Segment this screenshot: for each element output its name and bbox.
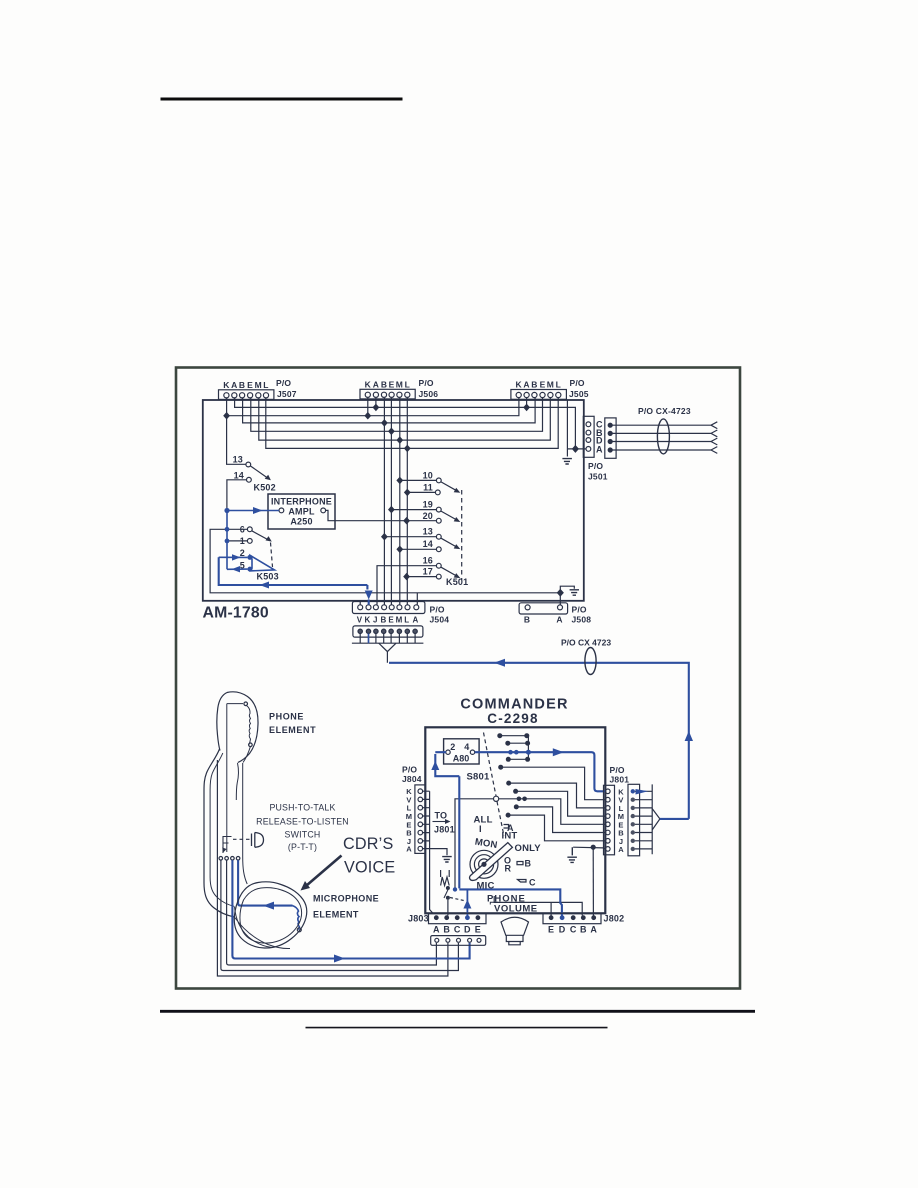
connector J508 body	[519, 603, 568, 614]
wire contact 14 to column M	[400, 548, 437, 550]
S801 pair3 dot R	[525, 757, 530, 762]
A80 pin labels and designator	[450, 742, 469, 764]
K503 contact 5 blue	[247, 567, 252, 572]
svg-text:6: 6	[240, 525, 245, 535]
svg-text:TO: TO	[435, 811, 448, 821]
S801 contact B dot	[514, 804, 519, 809]
PTT dashed link	[450, 898, 466, 902]
K501 arm 19-20	[441, 511, 458, 520]
position marker A tick	[504, 825, 509, 829]
junction dot node contact 1	[225, 539, 230, 544]
wire blue J504 strip K lead	[368, 634, 370, 644]
J801 cable funnel	[652, 809, 660, 830]
wire ground tap from box top edge	[566, 400, 568, 457]
phone element inner detail	[227, 704, 243, 852]
ground symbol commander left	[442, 857, 452, 862]
arrow into A250	[253, 507, 263, 514]
J506 pin K	[365, 392, 370, 397]
arrow on voice bus toward K503	[260, 582, 270, 589]
J803 mating contact B	[446, 938, 450, 942]
relay K501 contact 10	[436, 478, 441, 483]
blue mic grille	[293, 906, 300, 930]
J804 pin stubs and cable bus	[423, 791, 434, 914]
wire CX-4723 lead 4	[612, 447, 717, 454]
S801 contact L wire to J801	[510, 783, 605, 808]
wire CX-4723 lead 2	[612, 430, 717, 437]
J507 pin K	[224, 393, 229, 398]
relay K502 contact 14	[247, 477, 252, 482]
svg-text:E: E	[388, 616, 394, 625]
wire blue J803 D mic lead	[466, 889, 468, 915]
svg-text:K: K	[223, 380, 230, 390]
junction dot A250 input node	[224, 508, 229, 513]
svg-text:J504: J504	[430, 615, 450, 625]
svg-text:J505: J505	[569, 389, 589, 399]
svg-text:4: 4	[464, 742, 469, 752]
svg-text:K: K	[365, 616, 371, 625]
J504 pins V K J B E M L A	[358, 605, 363, 610]
J507 pin B	[240, 393, 245, 398]
junction diamond J508 ground net	[557, 589, 564, 597]
PTT dashed actuator link	[233, 838, 250, 840]
svg-text:20: 20	[423, 511, 433, 521]
S801 knob lever	[470, 843, 513, 881]
svg-text:PUSH-TO-TALK: PUSH-TO-TALK	[269, 803, 335, 813]
svg-text:K501: K501	[446, 577, 468, 587]
A80 audio amplifier box	[444, 739, 480, 764]
svg-text:17: 17	[423, 567, 433, 577]
svg-text:ALL: ALL	[474, 815, 493, 826]
connector J804 strip	[415, 785, 426, 854]
J803 mating contact D	[468, 938, 472, 942]
svg-text:K: K	[516, 380, 523, 390]
svg-text:P/O: P/O	[588, 461, 603, 471]
svg-text:AM-1780: AM-1780	[203, 605, 269, 622]
svg-text:VOICE: VOICE	[344, 859, 395, 877]
phone element inner curve	[243, 747, 250, 763]
svg-text:M: M	[396, 616, 403, 625]
svg-text:A: A	[413, 616, 419, 625]
S801 pair1 dot L	[497, 733, 502, 738]
svg-text:A: A	[556, 615, 562, 625]
wire column E J506 to J504	[390, 398, 392, 605]
svg-text:19: 19	[423, 500, 433, 510]
interphone amplifier A250 box	[268, 494, 335, 529]
relay K501 contact 20	[436, 518, 441, 523]
AM-1780 amplifier box	[203, 400, 584, 601]
phone element terminal bottom	[249, 743, 253, 747]
wire cord lead C	[221, 860, 459, 970]
svg-text:D: D	[559, 925, 566, 935]
position marker C tick	[518, 880, 527, 883]
CX-4723 receptacle block	[605, 418, 616, 458]
svg-text:B: B	[531, 380, 537, 390]
svg-text:S801: S801	[467, 772, 491, 783]
PTT contact dot upper	[446, 886, 450, 890]
svg-text:J507: J507	[277, 389, 297, 399]
svg-text:B: B	[381, 380, 387, 390]
wire blue A80 input riser	[435, 752, 459, 776]
svg-text:B: B	[525, 859, 532, 869]
A250 output pin	[321, 508, 326, 513]
arrow on CX-4723 run toward J504	[494, 659, 505, 667]
wire cord lead A	[227, 860, 437, 965]
wire blue A250 input	[227, 510, 279, 512]
S801 contact E dots	[517, 797, 522, 802]
J506 pin L	[405, 392, 410, 397]
volume pointer tick	[490, 902, 498, 904]
svg-text:A: A	[618, 845, 624, 854]
svg-text:J: J	[373, 616, 378, 625]
svg-text:B: B	[381, 616, 387, 625]
svg-text:B: B	[580, 925, 587, 935]
handset handle outline	[204, 749, 235, 917]
svg-text:V: V	[357, 616, 363, 625]
ground symbol at J508	[570, 590, 579, 595]
wire column M J506 to J504	[399, 398, 401, 605]
relay K501 contact 14	[436, 547, 441, 552]
cable ellipse CX-4723 lower	[585, 648, 596, 675]
svg-text:P/O: P/O	[402, 765, 417, 775]
phone element grille wavy edge	[247, 706, 251, 745]
J801 pins K V L M E B J A	[606, 789, 611, 794]
svg-text:P/O CX 4723: P/O CX 4723	[561, 638, 611, 648]
arrow into J504 pin K	[365, 591, 373, 600]
wire phone line J802 E and B	[494, 896, 582, 916]
K503 gang dashed link	[271, 543, 273, 568]
cord terminal 4	[236, 857, 240, 861]
svg-text:13: 13	[423, 527, 433, 537]
K502 arm arrowhead	[265, 475, 271, 481]
S801 pair3 dot L	[506, 757, 511, 762]
svg-text:C: C	[529, 878, 536, 888]
svg-text:MIC: MIC	[477, 881, 495, 892]
J803 mating contact C	[457, 938, 461, 942]
relay K501 contact 13	[436, 534, 441, 539]
PTT actuator bracket	[223, 837, 232, 854]
PTT switch button	[252, 833, 264, 848]
svg-text:E: E	[540, 380, 546, 390]
J801 mating strip	[628, 784, 640, 856]
J801 mating contacts	[631, 789, 635, 793]
svg-text:B: B	[524, 615, 530, 625]
J803 pin C	[455, 915, 460, 920]
relay K501 contact 19	[436, 507, 441, 512]
svg-text:1: 1	[240, 536, 245, 546]
J507 pin L	[263, 393, 268, 398]
wire node to contact 1	[227, 540, 248, 542]
junction diamond A at J506	[373, 404, 380, 412]
S801 pair2 dot L	[505, 741, 510, 746]
J506 pin M	[397, 392, 402, 397]
arrow on blue cord D	[334, 955, 345, 963]
S801 contact pair 3	[510, 758, 527, 760]
CX-4723 contact 1	[608, 423, 612, 427]
svg-text:M: M	[255, 380, 262, 390]
wire blue K503 line 5	[227, 568, 247, 570]
handset earpiece phone element	[217, 692, 258, 763]
svg-text:AMPL: AMPL	[288, 507, 315, 517]
J803 mating contact A	[435, 938, 439, 942]
CX-4723 contact 4	[608, 448, 612, 452]
svg-text:J508: J508	[572, 615, 592, 625]
svg-text:A: A	[590, 925, 597, 935]
cable ellipse CX-4723	[657, 419, 669, 454]
svg-text:K503: K503	[257, 572, 279, 582]
S801 contact E wire to J801	[499, 799, 605, 825]
J803 pin B	[444, 915, 449, 920]
J802 pin E	[549, 915, 554, 920]
wire blue voice bus J504K to K503	[219, 557, 368, 585]
A250 input pin	[279, 508, 284, 513]
S801 mic rotor contact (open)	[494, 796, 499, 801]
wire blue K503 line 2	[219, 556, 248, 558]
svg-text:E: E	[389, 380, 395, 390]
S801 contact B wire to J801	[518, 807, 605, 833]
J804 pins K V L M E B J A	[418, 789, 423, 794]
junction diamond M at J506	[396, 436, 403, 444]
CX-4723 contact 2	[608, 431, 612, 435]
relay K501 contact 17	[436, 574, 441, 579]
commander C-2298 box	[425, 727, 605, 913]
A80 pin 4	[470, 750, 474, 754]
svg-text:K502: K502	[254, 483, 276, 493]
handset cord channel line	[236, 763, 238, 800]
wire contact 11 to column L	[407, 491, 435, 493]
K503 contact arm 6-1	[252, 531, 270, 541]
junction diamond bus1 to J501 A	[572, 445, 579, 453]
svg-text:16: 16	[423, 556, 433, 566]
wire bus6 net L	[266, 398, 558, 448]
svg-text:M: M	[396, 380, 403, 390]
wire phone lead in handle	[217, 760, 448, 976]
wire bus4 net E	[251, 398, 543, 431]
svg-text:A250: A250	[290, 517, 312, 527]
svg-text:C: C	[454, 925, 461, 935]
J802 pin C	[571, 915, 576, 920]
CDR'S VOICE arrow	[307, 856, 342, 886]
J508 pin B	[525, 605, 530, 610]
svg-text:A: A	[523, 380, 529, 390]
svg-text:P/O: P/O	[419, 378, 434, 388]
svg-text:I: I	[479, 824, 482, 835]
svg-text:C-2298: C-2298	[487, 711, 538, 726]
wire blue mic element lead	[238, 860, 292, 906]
svg-text:L: L	[556, 380, 561, 390]
J803 pin E	[476, 915, 481, 920]
wire J803 B to PTT contact	[447, 900, 449, 916]
wire J506 pin K drop	[367, 398, 369, 416]
svg-text:10: 10	[423, 471, 433, 481]
PTT switch contacts and arm	[444, 890, 448, 898]
K501 arm arrowhead 17	[454, 573, 461, 578]
J802 pin A	[591, 915, 596, 920]
wire blue mic bus	[459, 889, 562, 915]
connector J505	[511, 390, 567, 400]
svg-text:P/O: P/O	[610, 765, 625, 775]
svg-text:11: 11	[423, 483, 433, 493]
J507 pin E	[248, 393, 253, 398]
svg-text:D: D	[464, 925, 471, 935]
rotary switch S801 body	[470, 850, 498, 878]
svg-text:INTERPHONE: INTERPHONE	[271, 497, 332, 507]
svg-text:P/O: P/O	[430, 605, 445, 615]
S801 contact M wire to J801	[517, 791, 605, 816]
J505 pin E	[540, 392, 545, 397]
relay K501 contact 16	[436, 563, 441, 568]
position marker B tick	[517, 862, 523, 865]
svg-text:P/O: P/O	[570, 378, 585, 388]
svg-text:A: A	[231, 380, 237, 390]
S801 contact bus vertical	[527, 736, 529, 760]
junction dots on blue output	[508, 750, 513, 755]
S801 contact J wire to J801	[509, 815, 604, 841]
J506 pin E	[389, 392, 394, 397]
K501 arm arrowhead 14	[454, 544, 461, 549]
relay coil PTT	[441, 870, 450, 886]
J505 pin K	[516, 392, 521, 397]
wire bus3 net B	[243, 398, 535, 423]
svg-text:P/O: P/O	[572, 605, 587, 615]
connector J504 body	[352, 602, 425, 614]
J506 pin B	[381, 392, 386, 397]
arrow on blue mic lead	[263, 902, 274, 910]
connector J802 body	[543, 913, 601, 923]
wire contact 17 to column L	[407, 576, 436, 578]
J505 pin A	[524, 392, 529, 397]
top rule	[161, 98, 403, 101]
junction diamond column E contact 19	[388, 506, 395, 514]
wire contact 10 to column M	[400, 479, 437, 481]
J803 pin A	[434, 915, 439, 920]
svg-text:B: B	[239, 380, 245, 390]
relay K503 contact 1	[247, 539, 252, 544]
svg-text:PHONE: PHONE	[269, 712, 304, 722]
S801 contact J dot	[506, 813, 511, 818]
outer frame	[176, 368, 740, 989]
junction diamond column L contact 17	[403, 573, 410, 581]
wire blue cord lead D	[232, 860, 469, 958]
K501 arm arrowhead 20	[454, 517, 461, 522]
J505 pin L	[556, 392, 561, 397]
svg-text:ELEMENT: ELEMENT	[269, 725, 316, 735]
S801 contact pair 1	[501, 735, 526, 737]
blue wedge at J801 K mating	[636, 789, 649, 795]
microphone handle joint lines	[235, 907, 291, 949]
svg-text:L: L	[263, 380, 268, 390]
microphone element body	[234, 882, 307, 948]
svg-text:2: 2	[240, 548, 245, 558]
wire column B J506 to J504	[383, 398, 385, 605]
phone element terminal top	[244, 702, 248, 706]
connector J803 body	[429, 913, 487, 923]
K503 wedge arm 2-5	[251, 556, 275, 571]
svg-text:ONLY: ONLY	[515, 843, 542, 854]
K503 arm 6-1 arrowhead	[266, 536, 272, 542]
arrow up on J803 D mic lead	[463, 900, 471, 909]
svg-text:A80: A80	[453, 754, 470, 764]
S801 center dot	[481, 862, 486, 867]
wire J505 pin A drop	[526, 398, 528, 407]
wire A250 output to contact 20 line	[326, 510, 437, 520]
K501 gang dashed link	[461, 490, 463, 580]
wire bus2 net K	[227, 398, 519, 464]
svg-text:P/O: P/O	[276, 378, 291, 388]
wire J501 pin A to bus1 junction	[567, 448, 586, 450]
CX-4723 contact 3	[608, 440, 612, 444]
J504 harness funnel	[379, 643, 396, 663]
arrow on line 5	[232, 566, 241, 572]
cord terminal 3	[231, 857, 235, 861]
svg-text:A: A	[406, 845, 412, 854]
S801 contact V dot	[498, 765, 503, 770]
J801 mating stubs to cable bus	[635, 784, 652, 854]
connector J506	[360, 389, 415, 399]
K501 arm arrowhead 11	[454, 488, 461, 493]
long bottom rule	[160, 1010, 755, 1013]
wire contact 14 to node	[227, 480, 247, 510]
wire node to contact 6	[227, 528, 248, 530]
arrow into contact 2	[232, 554, 241, 560]
K501 arm 13-14	[441, 538, 458, 547]
junction diamond K at J506	[364, 412, 371, 420]
wire ground tap left	[430, 849, 447, 856]
wire cable apex to blue riser	[660, 818, 689, 820]
svg-text:SWITCH: SWITCH	[285, 830, 321, 840]
J803 pin D	[465, 915, 470, 920]
svg-text:J506: J506	[419, 389, 439, 399]
ground symbol commander right	[567, 847, 577, 862]
svg-text:CDR’S: CDR’S	[343, 835, 393, 853]
connector J801 strip	[604, 785, 615, 855]
junction diamond A at J505	[523, 404, 530, 412]
svg-text:J802: J802	[604, 914, 625, 924]
wire mic select line	[455, 799, 494, 889]
wire ground bus to J801 A	[573, 847, 605, 849]
junction dot node contact 6	[225, 527, 230, 532]
J507 pin A	[232, 393, 237, 398]
svg-text:A: A	[373, 380, 379, 390]
wire bus1 net A	[235, 398, 576, 449]
svg-text:14: 14	[423, 539, 433, 549]
wire contact 13 to column B	[384, 536, 436, 538]
ground bus junction dot	[591, 845, 596, 850]
J501 pin C	[586, 422, 591, 427]
junction diamond K at J507	[223, 412, 230, 420]
wire column L J506 to J504	[406, 398, 408, 605]
S801 contact pair 2	[509, 742, 527, 744]
J506 pin A	[373, 392, 378, 397]
K501 arm 10-11	[441, 482, 458, 491]
S801 contact M dot	[513, 789, 518, 794]
wire CX-4723 lead 1	[612, 422, 717, 429]
J505 pin M	[548, 392, 553, 397]
PTT press arrowhead	[222, 848, 227, 853]
wire bus5 net M	[259, 398, 551, 440]
J501 pin D	[586, 438, 591, 443]
arrow up on blue riser	[685, 731, 693, 741]
K502 contact arm	[251, 466, 269, 479]
svg-text:J803: J803	[408, 914, 429, 924]
junction dot mic select on blue bus	[453, 887, 457, 891]
svg-text:L: L	[405, 380, 410, 390]
svg-text:MICROPHONE: MICROPHONE	[313, 894, 379, 904]
svg-text:13: 13	[233, 455, 243, 465]
arrow up into A80 pin 2	[431, 761, 439, 770]
svg-text:14: 14	[234, 471, 244, 481]
svg-text:K: K	[365, 380, 372, 390]
J802 pin D	[560, 915, 565, 920]
